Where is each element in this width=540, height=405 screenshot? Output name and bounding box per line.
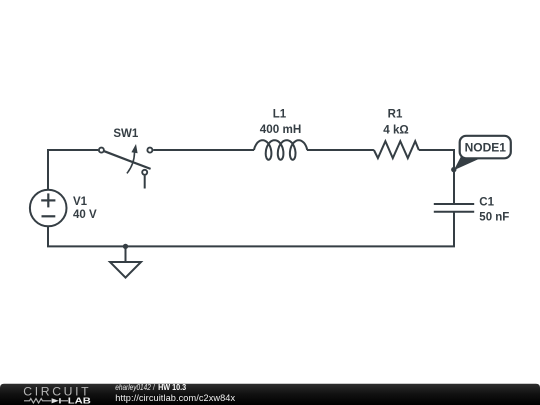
- svg-text:LAB: LAB: [68, 396, 91, 405]
- svg-text:L1: L1: [273, 108, 287, 120]
- svg-text:eharley0142: eharley0142: [115, 383, 151, 392]
- capacitor C1: [434, 204, 474, 212]
- label L1 value: [260, 108, 302, 136]
- label R1 value: [383, 109, 409, 137]
- wire: [153, 149, 254, 151]
- wire: [48, 150, 98, 190]
- logo wire resistor: [24, 399, 51, 403]
- node NODE1 callout: [451, 136, 511, 173]
- label C1 value: [479, 197, 509, 224]
- voltage source V1: [30, 190, 67, 227]
- svg-text:R1: R1: [388, 109, 403, 121]
- svg-text:C1: C1: [479, 197, 494, 209]
- svg-text:SW1: SW1: [113, 128, 139, 140]
- svg-text:http://circuitlab.com/c2xw84x: http://circuitlab.com/c2xw84x: [115, 393, 235, 403]
- ground: [110, 244, 141, 278]
- logo diode: [52, 398, 59, 403]
- wire: [48, 212, 454, 247]
- wire: [307, 149, 374, 151]
- resistor R1: [374, 141, 419, 158]
- svg-text:HW 10.3: HW 10.3: [158, 383, 186, 392]
- label V1 value: [73, 196, 97, 221]
- svg-text:NODE1: NODE1: [465, 140, 507, 154]
- wire: [419, 150, 454, 204]
- svg-text:50 nF: 50 nF: [479, 211, 509, 223]
- inductor L1: [254, 140, 307, 160]
- svg-text:4 kΩ: 4 kΩ: [383, 124, 409, 136]
- switch SW1: [99, 144, 152, 189]
- svg-text:400 mH: 400 mH: [260, 124, 302, 136]
- svg-text:40 V: 40 V: [73, 209, 97, 221]
- svg-text:V1: V1: [73, 196, 88, 208]
